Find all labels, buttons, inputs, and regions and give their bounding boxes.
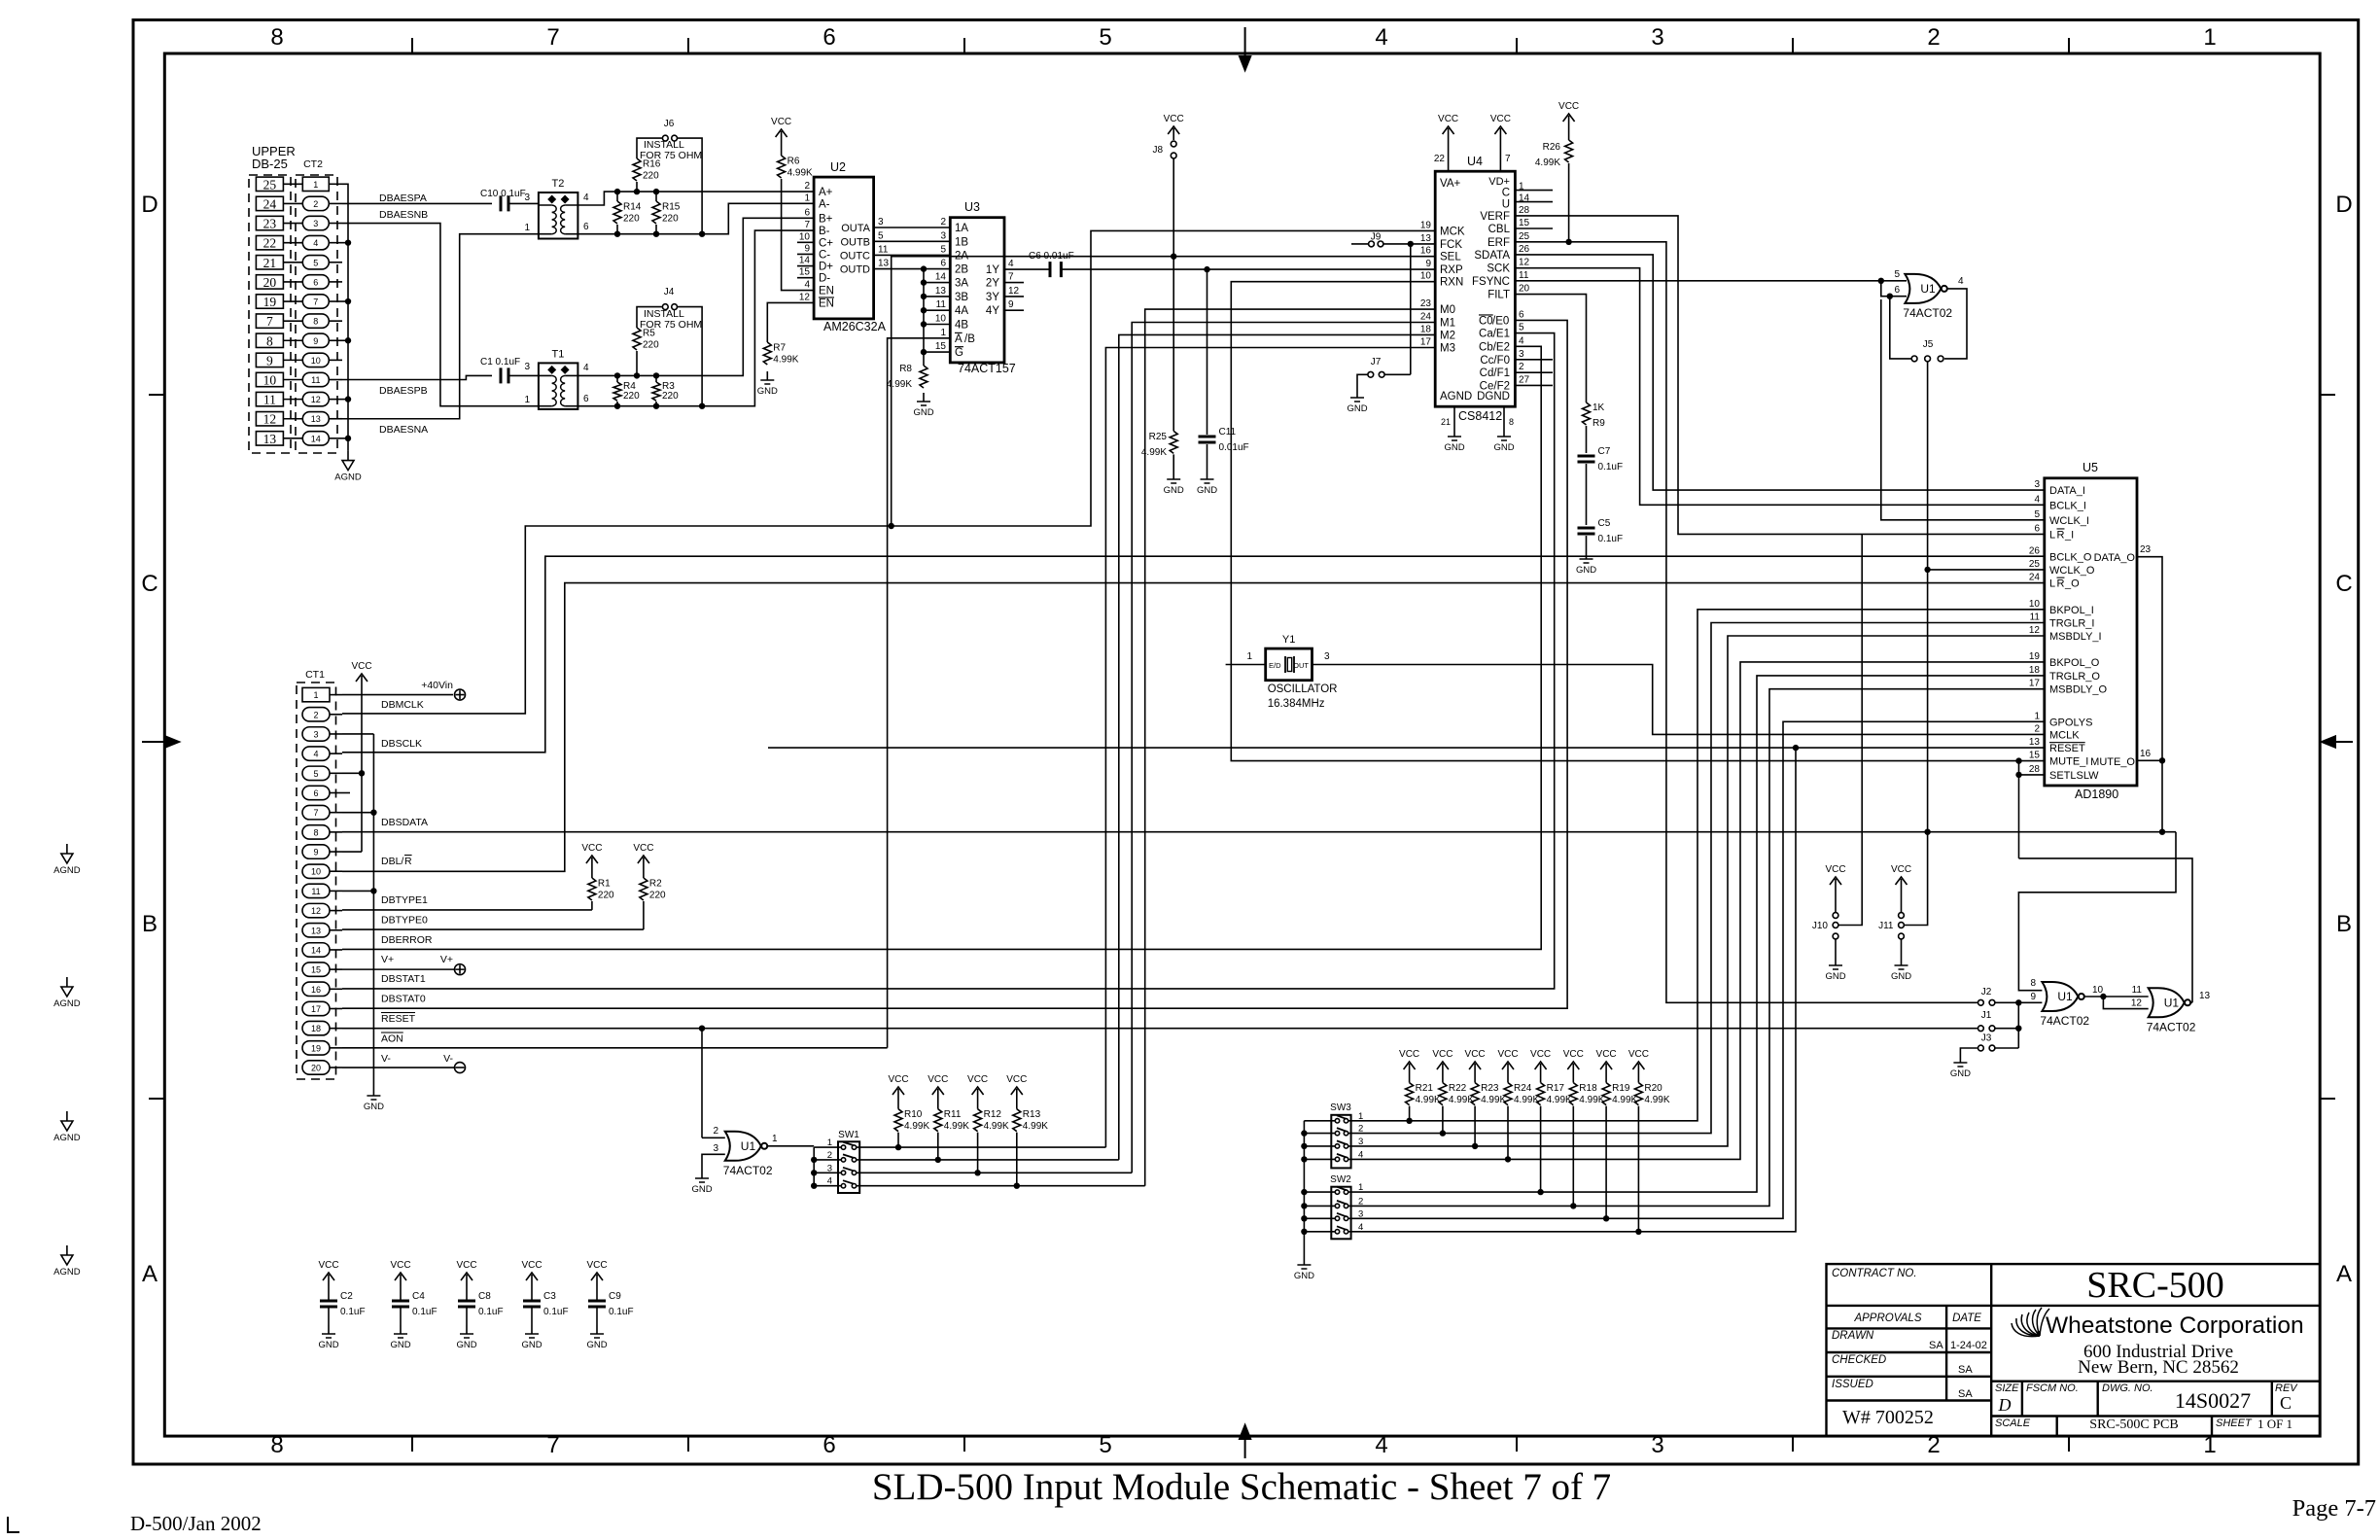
SW1 left common rail bbox=[813, 1147, 815, 1186]
CT2 pin 6 bbox=[302, 275, 329, 289]
svg-text:CBL: CBL bbox=[1488, 224, 1511, 235]
power VCC above R22 bbox=[1432, 1049, 1452, 1075]
corner registration mark bottom-left bbox=[8, 1517, 19, 1532]
resistor R6 4.99K bbox=[781, 143, 783, 156]
wire DBL/R to U5 LR_O bbox=[342, 583, 2045, 872]
capacitor C11 0.01uF bbox=[1199, 427, 1249, 453]
border center marker arrow right bbox=[2322, 736, 2353, 747]
svg-text:U1: U1 bbox=[741, 1139, 756, 1153]
power VCC above R1 bbox=[581, 843, 602, 869]
DB-25 pin 21 bbox=[256, 256, 283, 269]
svg-text:10: 10 bbox=[799, 231, 811, 242]
svg-text:SIZE: SIZE bbox=[1995, 1382, 2019, 1394]
wire DBAESNA CT2 pin13 to T2 pin1 bbox=[342, 234, 539, 419]
svg-text:4.99K: 4.99K bbox=[773, 354, 798, 365]
CT1 pin 20 bbox=[302, 1061, 330, 1074]
svg-text:SW3: SW3 bbox=[1330, 1102, 1351, 1113]
wire DBAESPB CT2 pin11 to C1 bbox=[342, 375, 492, 379]
analog ground AGND margin symbol bbox=[53, 1111, 81, 1143]
svg-text:14S0027: 14S0027 bbox=[2175, 1388, 2251, 1413]
analog ground AGND margin symbol bbox=[53, 844, 81, 876]
svg-text:R15: R15 bbox=[662, 201, 681, 212]
svg-text:U1: U1 bbox=[2057, 990, 2073, 1003]
svg-text:CONTRACT NO.: CONTRACT NO. bbox=[1832, 1268, 1917, 1279]
wire J10 lower pin to ground bbox=[1835, 940, 1837, 958]
svg-text:4.99K: 4.99K bbox=[1547, 1095, 1572, 1105]
wire switch row to U5 RESET rail bbox=[1348, 748, 2045, 1232]
svg-text:FSCM NO.: FSCM NO. bbox=[2026, 1382, 2079, 1394]
wire RESET drop to U1 pin2 bbox=[701, 1029, 703, 1138]
svg-text:6: 6 bbox=[583, 222, 589, 232]
wire C1 to T1 pin3 bbox=[508, 374, 539, 376]
svg-text:2Y: 2Y bbox=[986, 278, 999, 290]
CT1 pin 9 bbox=[302, 845, 330, 858]
resistor R12 4.99K bbox=[977, 1101, 979, 1109]
svg-text:ERF: ERF bbox=[1487, 237, 1510, 249]
svg-text:74ACT02: 74ACT02 bbox=[1903, 306, 1952, 320]
svg-text:2: 2 bbox=[1927, 24, 1940, 51]
svg-text:220: 220 bbox=[662, 213, 679, 224]
svg-text:D-: D- bbox=[819, 273, 830, 285]
capacitor C7 0.1uF bbox=[1578, 446, 1624, 472]
wire Y1 pin1 stub bbox=[1226, 664, 1266, 666]
wire T2 pin4 to A+ rail bbox=[577, 192, 814, 205]
svg-text:SETLSLW: SETLSLW bbox=[2049, 770, 2099, 782]
svg-text:CS8412: CS8412 bbox=[1458, 409, 1502, 423]
svg-text:DBTYPE0: DBTYPE0 bbox=[381, 915, 428, 927]
svg-text:V-: V- bbox=[381, 1053, 391, 1065]
svg-text:SRC-500: SRC-500 bbox=[2086, 1265, 2223, 1306]
wire U4 M1 to SW1 pole3 riser bbox=[1132, 323, 1435, 1173]
svg-text:11: 11 bbox=[311, 887, 320, 896]
svg-text:R: R bbox=[2057, 529, 2065, 541]
wire R2 to DBTYPE0 bbox=[643, 901, 645, 929]
svg-text:VCC: VCC bbox=[1490, 114, 1511, 124]
svg-text:SHEET: SHEET bbox=[2216, 1417, 2253, 1429]
resistor R24 4.99K bbox=[1507, 1075, 1509, 1083]
svg-text:5: 5 bbox=[878, 230, 884, 241]
wire DBMCLK to U4 MCK riser bbox=[342, 230, 1435, 714]
svg-text:GND: GND bbox=[1825, 971, 1845, 982]
svg-text:11: 11 bbox=[1519, 270, 1529, 281]
wire U5 SETLSLW tap bbox=[2019, 774, 2045, 776]
power VCC above R6 bbox=[771, 117, 791, 143]
resistor R16 220 bbox=[634, 189, 640, 194]
wire switch row to U5 TRGLR_O bbox=[1348, 676, 2045, 1192]
svg-text:10: 10 bbox=[1420, 271, 1432, 282]
svg-text:3: 3 bbox=[713, 1143, 718, 1154]
svg-text:D-500/Jan 2002: D-500/Jan 2002 bbox=[130, 1512, 262, 1535]
svg-text:U1: U1 bbox=[2164, 996, 2180, 1009]
svg-text:MSBDLY_O: MSBDLY_O bbox=[2049, 684, 2108, 696]
wire branch to U1 pin12 bbox=[2103, 997, 2148, 1009]
svg-text:9: 9 bbox=[266, 353, 273, 367]
wire switch row to U5 BKPOL_I bbox=[1348, 610, 2045, 1121]
CT2 pin 11 bbox=[302, 372, 329, 386]
svg-text:A-: A- bbox=[819, 198, 830, 210]
CT1 pin6 stub bbox=[342, 792, 350, 794]
svg-text:4.99K: 4.99K bbox=[1612, 1095, 1637, 1105]
svg-text:3: 3 bbox=[524, 362, 530, 372]
svg-text:BCLK_O: BCLK_O bbox=[2049, 552, 2092, 564]
svg-text:New Bern, NC 28562: New Bern, NC 28562 bbox=[2078, 1357, 2239, 1378]
wire J9 to U4 FCK bbox=[1383, 243, 1435, 245]
svg-text:13: 13 bbox=[2199, 991, 2211, 1001]
svg-text:22: 22 bbox=[263, 236, 277, 251]
svg-text:11: 11 bbox=[878, 244, 889, 255]
power VCC above C2 bbox=[318, 1260, 338, 1286]
svg-text:26: 26 bbox=[2029, 546, 2041, 557]
svg-text:1 OF 1: 1 OF 1 bbox=[2257, 1417, 2292, 1431]
svg-text:C: C bbox=[2280, 1393, 2292, 1413]
svg-text:V+: V+ bbox=[440, 954, 453, 965]
svg-text:4.99K: 4.99K bbox=[1449, 1095, 1474, 1105]
svg-text:18: 18 bbox=[2029, 665, 2041, 676]
wire U5 WCLK_O tap to J5 rail bbox=[1928, 569, 2045, 571]
svg-text:0.1uF: 0.1uF bbox=[543, 1307, 569, 1317]
svg-text:1: 1 bbox=[313, 180, 318, 190]
svg-text:B-: B- bbox=[819, 226, 830, 237]
power VCC above R18 bbox=[1563, 1049, 1584, 1075]
svg-text:Page 7-7: Page 7-7 bbox=[2292, 1495, 2376, 1522]
svg-text:7: 7 bbox=[546, 1432, 559, 1458]
svg-text:13: 13 bbox=[878, 259, 890, 269]
svg-text:9: 9 bbox=[313, 848, 318, 857]
svg-text:18: 18 bbox=[1420, 324, 1432, 334]
svg-text:ISSUED: ISSUED bbox=[1832, 1379, 1873, 1390]
power VCC above R20 bbox=[1628, 1049, 1649, 1075]
svg-text:CT2: CT2 bbox=[303, 158, 323, 170]
svg-text:G: G bbox=[955, 347, 963, 359]
svg-text:DATA_I: DATA_I bbox=[2049, 485, 2085, 497]
svg-text:GND: GND bbox=[521, 1340, 542, 1350]
wire U4 SDATA to U5 DATA_I bbox=[1515, 255, 2044, 490]
CT1 pin 3 bbox=[302, 727, 330, 741]
wire T1 pin6 rail to B- bbox=[577, 230, 814, 406]
svg-text:Wheatstone Corporation: Wheatstone Corporation bbox=[2046, 1312, 2304, 1339]
svg-text:3: 3 bbox=[940, 230, 946, 241]
svg-text:D: D bbox=[1998, 1395, 2012, 1415]
svg-text:1: 1 bbox=[1246, 651, 1252, 662]
wire CT2 pin 9 to AGND rail bbox=[342, 339, 348, 341]
svg-text:RESET: RESET bbox=[381, 1013, 416, 1025]
ic U4 CS8412 digital audio receiver bbox=[1435, 171, 1515, 406]
svg-text:VCC: VCC bbox=[390, 1260, 410, 1271]
svg-text:9: 9 bbox=[313, 336, 318, 346]
svg-text:4.99K: 4.99K bbox=[1023, 1121, 1048, 1132]
svg-text:28: 28 bbox=[2029, 764, 2041, 775]
CT1 pin 16 bbox=[302, 982, 330, 996]
wire U5 DATA_O riser bbox=[2137, 557, 2162, 832]
ground below R25 bbox=[1164, 471, 1184, 496]
svg-text:OUTC: OUTC bbox=[840, 250, 870, 262]
svg-text:4.99K: 4.99K bbox=[1514, 1095, 1539, 1105]
wire RESET CT1 pin18 to jumper J1 bbox=[342, 1028, 1977, 1030]
wire CT1 pin11 to GND rail bbox=[342, 890, 373, 892]
capacitor C8 0.1uF bbox=[466, 1286, 468, 1301]
DB-25 pin 7 bbox=[256, 314, 283, 328]
svg-text:4: 4 bbox=[2034, 494, 2040, 505]
svg-text:GND: GND bbox=[1950, 1068, 1971, 1079]
power VCC above R19 bbox=[1596, 1049, 1617, 1075]
svg-text:E/D: E/D bbox=[1269, 661, 1281, 670]
wire U4 M2 to SW1 pole2 riser bbox=[1119, 334, 1435, 1160]
svg-text:CT1: CT1 bbox=[305, 669, 325, 681]
svg-text:2: 2 bbox=[313, 710, 318, 719]
capacitor C9 0.1uF bbox=[596, 1286, 598, 1301]
svg-text:21: 21 bbox=[1441, 417, 1451, 427]
CT1 pin 2 bbox=[302, 708, 330, 721]
CT1 pin 15 bbox=[302, 962, 330, 976]
connector CT2 dashed outline bbox=[296, 175, 337, 453]
svg-text:25: 25 bbox=[263, 177, 277, 192]
DB-25 pin 23 bbox=[256, 216, 283, 229]
svg-text:VCC: VCC bbox=[521, 1260, 542, 1271]
svg-text:VCC: VCC bbox=[1432, 1049, 1452, 1060]
svg-text:GND: GND bbox=[1197, 485, 1217, 496]
resistor R13 4.99K bbox=[1016, 1101, 1018, 1109]
svg-text:7: 7 bbox=[266, 314, 273, 329]
svg-text:3: 3 bbox=[1651, 24, 1663, 51]
wire CT2 pin 7 to AGND rail bbox=[342, 300, 348, 302]
switch SW3 outline bbox=[1331, 1115, 1350, 1169]
svg-text:C3: C3 bbox=[543, 1291, 556, 1302]
svg-text:4.99K: 4.99K bbox=[1644, 1095, 1669, 1105]
wire switch row to U5 BKPOL_O bbox=[1348, 662, 2045, 1160]
svg-text:5: 5 bbox=[940, 244, 946, 255]
jumper J11 bbox=[1901, 891, 1903, 912]
svg-text:R6: R6 bbox=[787, 156, 800, 166]
wires U2 outputs to U3 inputs bbox=[874, 227, 951, 228]
svg-text:VCC: VCC bbox=[1825, 864, 1845, 875]
svg-text:0.1uF: 0.1uF bbox=[1598, 534, 1624, 544]
svg-text:J2: J2 bbox=[1981, 987, 1992, 997]
svg-text:R: R bbox=[404, 856, 412, 867]
svg-text:VCC: VCC bbox=[927, 1074, 948, 1085]
resistor R5 220 bbox=[634, 372, 640, 378]
svg-text:4.99K: 4.99K bbox=[944, 1121, 969, 1132]
svg-text:VCC: VCC bbox=[586, 1260, 607, 1271]
svg-text:DBAESPB: DBAESPB bbox=[379, 385, 428, 397]
svg-text:AON: AON bbox=[381, 1033, 403, 1045]
svg-text:B: B bbox=[2336, 911, 2352, 937]
svg-text:VCC: VCC bbox=[1530, 1049, 1551, 1060]
svg-text:0.01uF: 0.01uF bbox=[1219, 442, 1249, 453]
wire U5 RESET rail from left bbox=[768, 747, 1796, 749]
svg-text:APPROVALS: APPROVALS bbox=[1853, 1312, 1921, 1324]
svg-text:0.1uF: 0.1uF bbox=[478, 1307, 504, 1317]
svg-text:19: 19 bbox=[263, 295, 277, 309]
svg-text:15: 15 bbox=[2029, 751, 2041, 761]
connector CT1 dashed outline bbox=[297, 682, 336, 1079]
svg-text:VCC: VCC bbox=[1006, 1074, 1027, 1085]
svg-text:11: 11 bbox=[311, 375, 320, 385]
DB-25 pin 19 bbox=[256, 295, 283, 308]
svg-text:28: 28 bbox=[1519, 205, 1530, 216]
CT2 pin 2 bbox=[302, 196, 329, 210]
svg-text:15: 15 bbox=[935, 341, 947, 352]
svg-text:J5: J5 bbox=[1923, 339, 1934, 350]
svg-text:SW2: SW2 bbox=[1330, 1174, 1351, 1185]
svg-text:8: 8 bbox=[270, 1432, 283, 1458]
wire T1 pin4 rail to B+ bbox=[577, 218, 814, 375]
power VCC above J10 bbox=[1825, 864, 1845, 891]
CT2 pin 5 bbox=[302, 256, 329, 269]
capacitor C4 0.1uF bbox=[400, 1286, 402, 1301]
svg-text:BCLK_I: BCLK_I bbox=[2049, 500, 2086, 511]
svg-text:AM26C32A: AM26C32A bbox=[823, 320, 887, 333]
wire J2 to U1 pin9 bbox=[1995, 1001, 2042, 1003]
wire CT2 pin 12 to AGND rail bbox=[342, 399, 348, 401]
svg-text:24: 24 bbox=[263, 196, 277, 211]
svg-text:VCC: VCC bbox=[967, 1074, 988, 1085]
svg-text:2: 2 bbox=[313, 199, 318, 209]
capacitor C2 0.1uF bbox=[328, 1286, 330, 1301]
svg-text:GND: GND bbox=[757, 386, 778, 397]
oscillator Y1 16.384MHz bbox=[1266, 634, 1338, 710]
svg-text:U3: U3 bbox=[964, 200, 980, 214]
svg-text:74ACT02: 74ACT02 bbox=[2147, 1020, 2196, 1033]
svg-text:U1: U1 bbox=[1920, 282, 1936, 296]
U2 pin stubs C+ C- D+ D- bbox=[797, 242, 814, 277]
svg-text:6: 6 bbox=[313, 277, 318, 287]
wire U4 VERF to U5 LR_I bbox=[1515, 216, 2044, 535]
svg-text:U4: U4 bbox=[1467, 155, 1483, 168]
svg-text:DBAESPA: DBAESPA bbox=[379, 192, 427, 204]
svg-text:0.1uF: 0.1uF bbox=[340, 1307, 366, 1317]
svg-text:VCC: VCC bbox=[1438, 114, 1458, 124]
resistor R8 4.99K bbox=[923, 352, 925, 366]
svg-text:M1: M1 bbox=[1440, 318, 1455, 330]
svg-text:12: 12 bbox=[2131, 998, 2143, 1009]
wire FSYNC branch to U1 pin6 bbox=[1881, 281, 1907, 297]
jumper J10 bbox=[1835, 891, 1837, 912]
svg-text:DBSCLK: DBSCLK bbox=[381, 738, 422, 750]
svg-text:DBAESNA: DBAESNA bbox=[379, 424, 428, 436]
svg-text:/B: /B bbox=[964, 333, 975, 345]
svg-text:VCC: VCC bbox=[633, 843, 653, 854]
svg-text:16: 16 bbox=[2140, 749, 2152, 759]
svg-text:13: 13 bbox=[311, 414, 321, 424]
svg-text:12: 12 bbox=[1519, 258, 1530, 268]
analog ground AGND margin symbol bbox=[53, 1245, 81, 1277]
svg-text:R26: R26 bbox=[1543, 142, 1561, 153]
connector DB-25 dashed outline bbox=[249, 175, 291, 453]
svg-text:Cb/E2: Cb/E2 bbox=[1479, 341, 1510, 353]
svg-text:13: 13 bbox=[935, 286, 947, 297]
svg-text:27: 27 bbox=[1519, 374, 1530, 385]
svg-text:24: 24 bbox=[2029, 573, 2041, 583]
svg-text:C: C bbox=[2335, 571, 2352, 597]
svg-text:8: 8 bbox=[1509, 417, 1514, 427]
svg-text:CHECKED: CHECKED bbox=[1832, 1354, 1886, 1366]
wire U1 output to SW1 rail bbox=[767, 1145, 814, 1147]
resistor R14 220 bbox=[614, 189, 620, 194]
svg-text:DBTYPE1: DBTYPE1 bbox=[381, 894, 428, 906]
svg-text:13: 13 bbox=[263, 432, 277, 446]
column zone ticks bottom bbox=[411, 1436, 413, 1452]
svg-text:16.384MHz: 16.384MHz bbox=[1268, 698, 1325, 710]
wire switch row to U5 TRGLR_I bbox=[1348, 623, 2045, 1134]
svg-text:SRC-500C PCB: SRC-500C PCB bbox=[2089, 1417, 2178, 1432]
svg-text:FCK: FCK bbox=[1440, 239, 1462, 251]
svg-text:DATA_O: DATA_O bbox=[2094, 552, 2136, 564]
svg-text:1B: 1B bbox=[955, 236, 968, 248]
svg-text:1: 1 bbox=[772, 1134, 778, 1144]
svg-text:VCC: VCC bbox=[1465, 1049, 1486, 1060]
ground below C9 bbox=[586, 1325, 607, 1350]
svg-text:J6: J6 bbox=[664, 119, 675, 129]
resistor R9 1K bbox=[1583, 402, 1591, 425]
wire CT1 pin3 to GND rail bbox=[342, 733, 373, 735]
svg-text:4: 4 bbox=[804, 280, 810, 291]
wire CT2 pin1 to AGND rail bbox=[342, 184, 348, 450]
Wheatstone logo swirl bbox=[2012, 1308, 2049, 1337]
svg-text:220: 220 bbox=[598, 890, 614, 900]
CT2 pin 4 bbox=[302, 235, 329, 249]
svg-text:5: 5 bbox=[313, 258, 318, 267]
svg-text:SCALE: SCALE bbox=[1995, 1417, 2031, 1429]
wire C10 to T2 pin3 bbox=[508, 202, 539, 204]
resistor R19 4.99K bbox=[1605, 1075, 1607, 1083]
power VCC above R26 bbox=[1558, 101, 1579, 127]
CT2 pin 9 bbox=[302, 333, 329, 347]
wire DBAESNB CT2 pin3 to T1 pin1 bbox=[342, 224, 539, 406]
resistor R26 4.99K bbox=[1568, 127, 1570, 140]
svg-text:DBSDATA: DBSDATA bbox=[381, 817, 428, 828]
svg-text:2: 2 bbox=[2034, 723, 2040, 734]
svg-text:C0: C0 bbox=[1479, 315, 1493, 327]
svg-text:4: 4 bbox=[1008, 259, 1014, 269]
svg-text:4: 4 bbox=[1375, 1432, 1387, 1458]
svg-text:16: 16 bbox=[311, 985, 321, 995]
svg-text:23: 23 bbox=[263, 217, 277, 231]
DB-25 pin 20 bbox=[256, 275, 283, 289]
svg-text:25: 25 bbox=[1519, 231, 1530, 242]
DB-25 pin 22 bbox=[256, 235, 283, 249]
resistor R17 4.99K bbox=[1540, 1075, 1542, 1083]
power VCC above J11 bbox=[1891, 864, 1911, 891]
wire U1 pin3 to ground bbox=[702, 1154, 725, 1170]
wire CT1 pin20 to V- bbox=[342, 1067, 455, 1068]
wire U4 M3 to SW1 pole1 riser bbox=[1105, 348, 1435, 1148]
svg-text:1: 1 bbox=[940, 328, 946, 338]
svg-text:C2: C2 bbox=[340, 1291, 353, 1302]
CT1 pin 8 bbox=[302, 825, 330, 839]
wire DBSTAT1 to Ca/E1 riser bbox=[342, 333, 1555, 989]
CT1 pin 5 bbox=[302, 766, 330, 780]
svg-text:23: 23 bbox=[2140, 544, 2152, 555]
CT1 pin 13 bbox=[302, 924, 330, 937]
svg-text:W# 700252: W# 700252 bbox=[1842, 1407, 1934, 1428]
svg-text:DATE: DATE bbox=[1952, 1312, 1981, 1324]
svg-text:BKPOL_O: BKPOL_O bbox=[2049, 657, 2100, 669]
resistor R18 4.99K bbox=[1572, 1075, 1574, 1083]
svg-text:B: B bbox=[142, 911, 157, 937]
svg-text:Cd/F1: Cd/F1 bbox=[1480, 367, 1510, 379]
svg-text:R14: R14 bbox=[623, 201, 642, 212]
svg-text:3B: 3B bbox=[955, 292, 968, 303]
svg-text:VCC: VCC bbox=[1164, 114, 1184, 124]
power VCC above R21 bbox=[1399, 1049, 1419, 1075]
svg-text:C8: C8 bbox=[478, 1291, 491, 1302]
svg-text:4: 4 bbox=[313, 238, 318, 248]
svg-text:8: 8 bbox=[266, 333, 273, 348]
svg-text:FOR 75 OHM: FOR 75 OHM bbox=[640, 150, 702, 161]
svg-text:220: 220 bbox=[643, 170, 659, 181]
U4 VA+ VCC supply bbox=[1438, 114, 1458, 140]
svg-text:VCC: VCC bbox=[581, 843, 602, 854]
